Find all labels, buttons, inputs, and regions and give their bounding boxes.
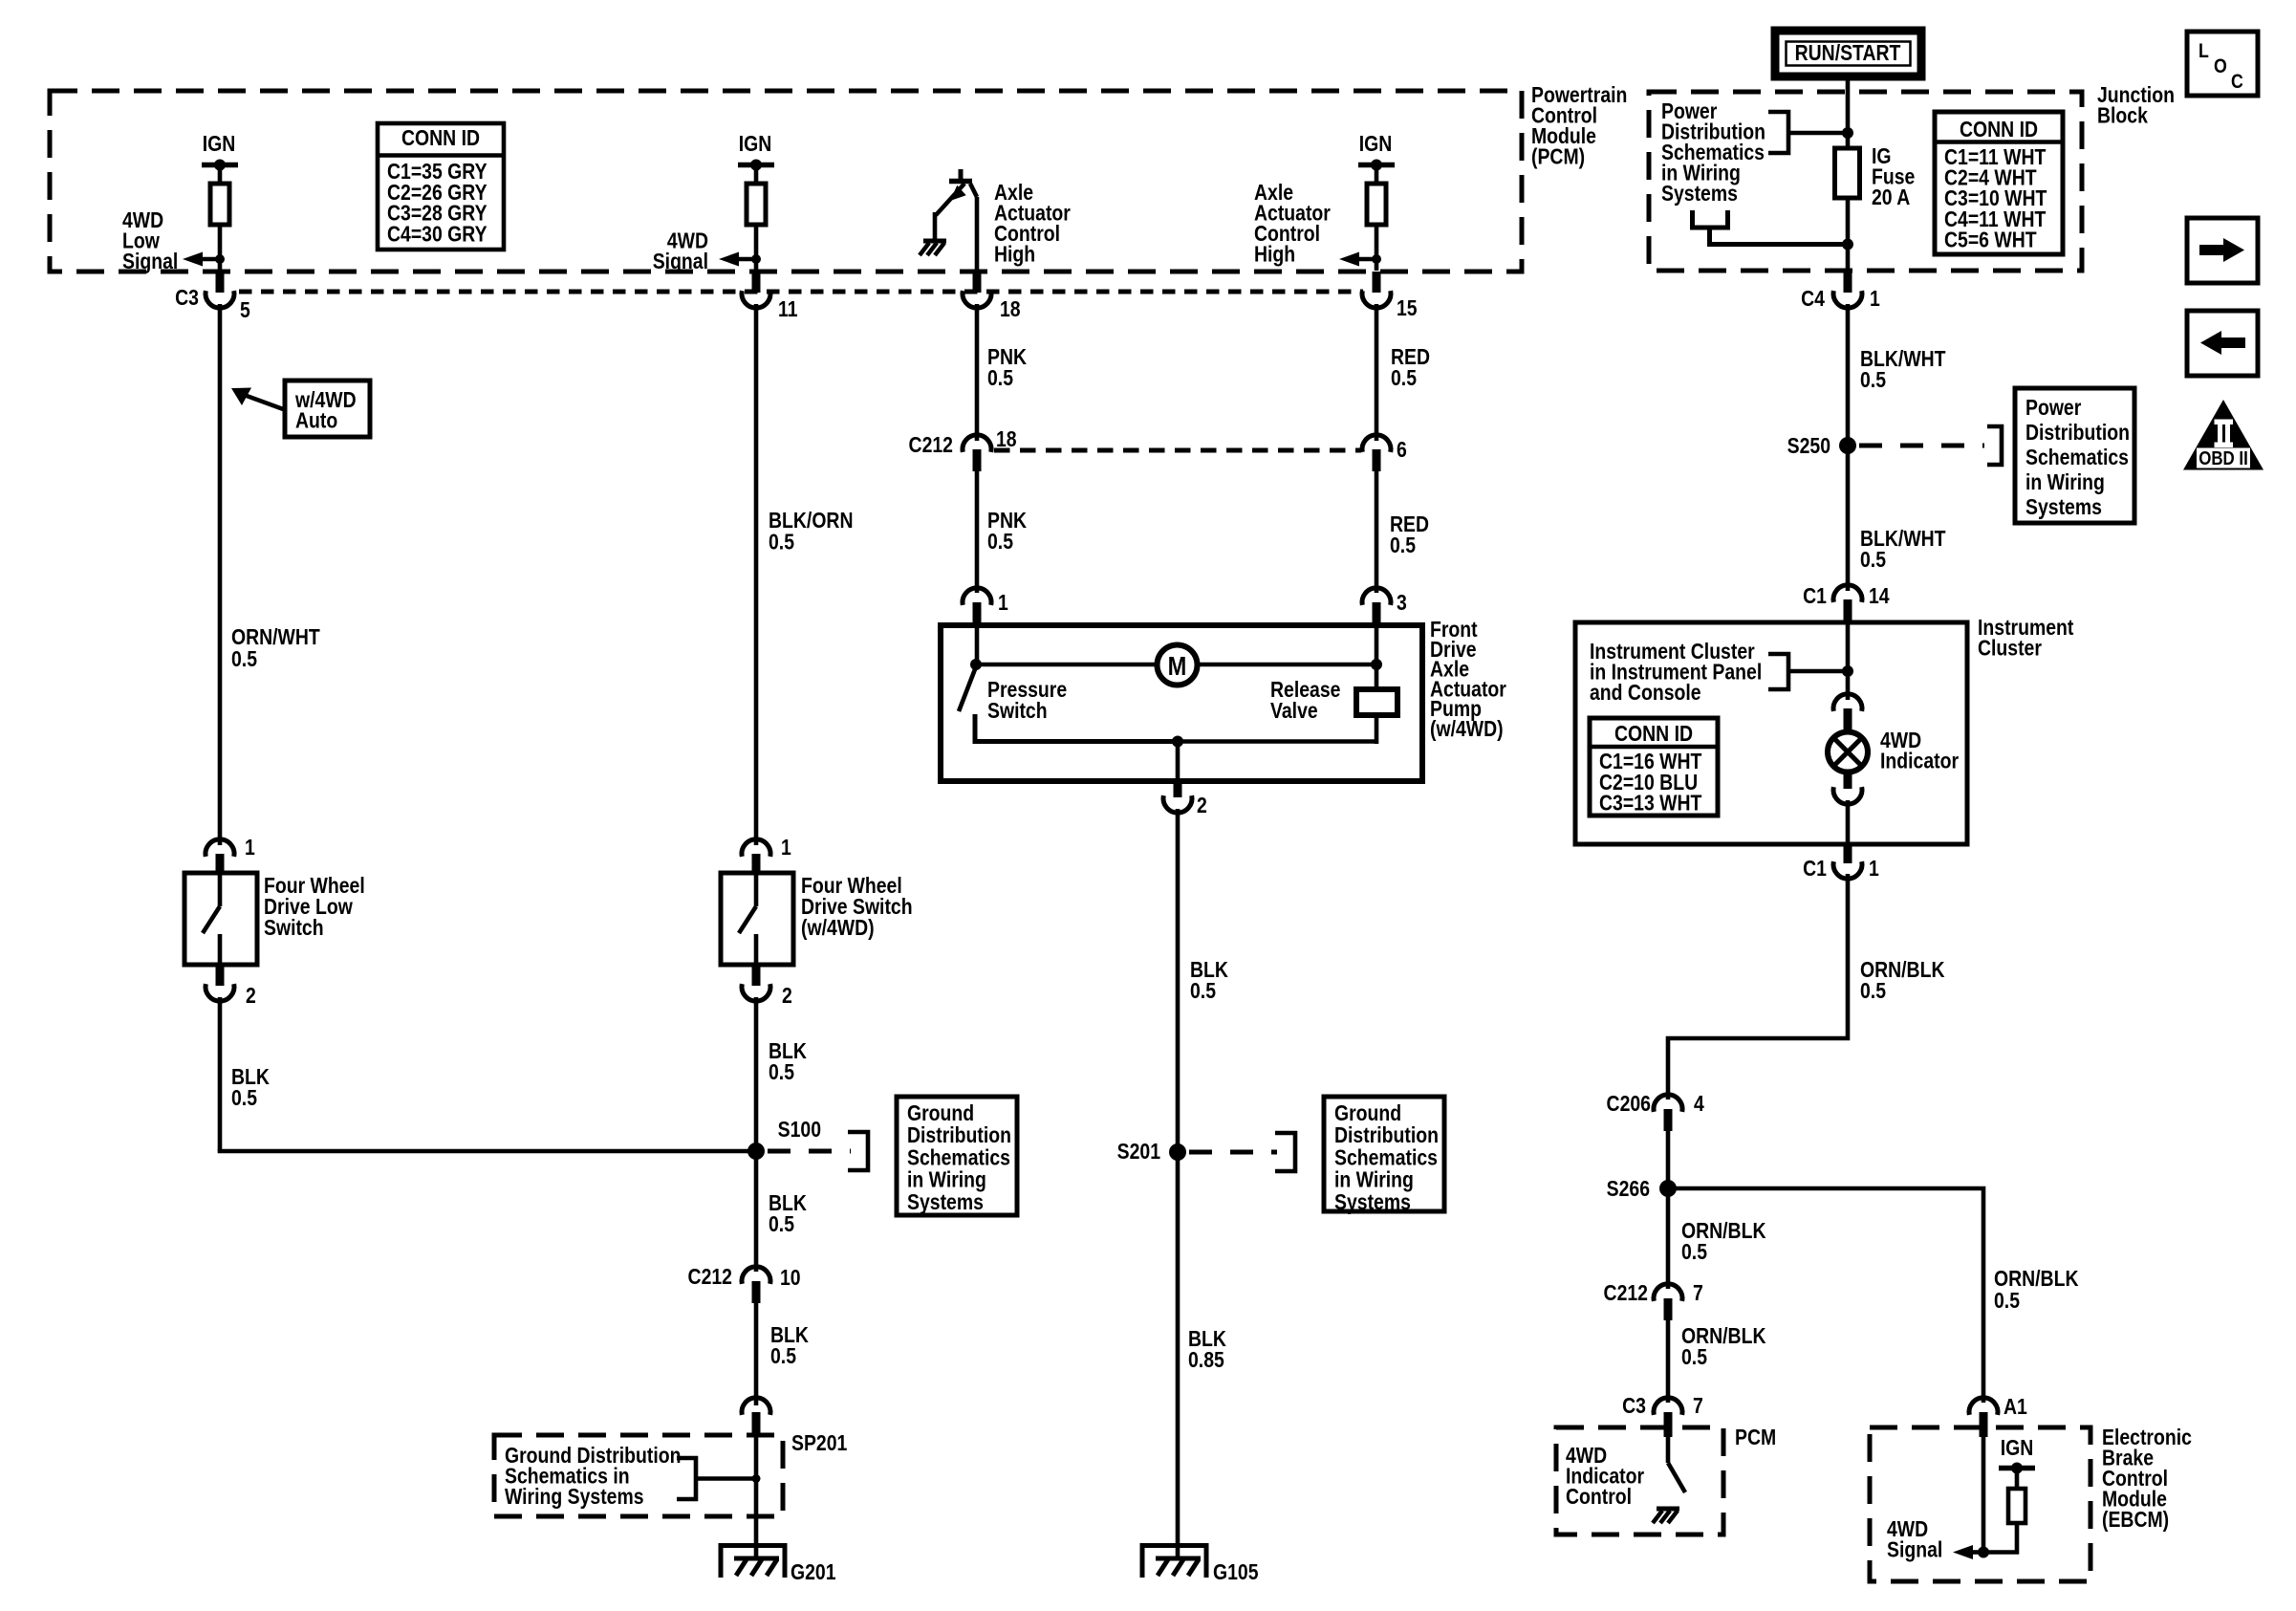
svg-text:C4: C4 — [1801, 286, 1825, 311]
wire RED 0.5 C212-6 to pump pin 3 — [1375, 471, 1379, 593]
label w/4WD Auto with arrow — [285, 381, 370, 437]
LOC legend box — [2187, 32, 2258, 96]
svg-text:C5=6 WHT: C5=6 WHT — [1944, 228, 2037, 252]
Ground Distribution Schematics in Wiring Systems box (S100) — [897, 1097, 1017, 1215]
PCM (Powertrain Control Module) dashed box — [50, 91, 1522, 272]
connector PCM pin 18 — [973, 272, 982, 293]
connector C206 pin 4 — [1654, 1095, 1682, 1112]
svg-text:CONN ID: CONN ID — [1614, 721, 1693, 746]
connector Four Wheel Drive Low Switch pin 1 — [206, 839, 234, 857]
wire ORN/BLK S266 to C212-7 — [1666, 1188, 1671, 1289]
svg-text:CONN ID: CONN ID — [401, 125, 480, 150]
svg-text:(PCM): (PCM) — [1531, 144, 1585, 169]
svg-text:G105: G105 — [1213, 1559, 1259, 1584]
arrow right legend box — [2187, 218, 2258, 283]
resistor EBCM 4WD signal pull-up — [2008, 1489, 2025, 1523]
wire RUN/START into junction block — [1846, 76, 1851, 151]
svg-text:1: 1 — [781, 835, 791, 860]
svg-text:A1: A1 — [2004, 1394, 2027, 1419]
connector C212 pin 18 — [963, 435, 991, 452]
svg-text:IGN: IGN — [203, 131, 236, 156]
wire IGN to resistor EBCM — [2015, 1468, 2020, 1489]
wire resistor to 4WD Signal node — [754, 225, 759, 271]
bracket reference power distribution — [1768, 112, 1788, 153]
svg-text:Switch: Switch — [264, 915, 324, 940]
wire ORN/BLK 0.5 C1-1 elbow to C206 — [1668, 874, 1848, 1099]
wire BLK 0.5 S100 to C212-10 — [754, 1151, 759, 1272]
bracket reference instrument cluster — [1768, 654, 1788, 689]
connector PCM pin 11 — [752, 272, 761, 293]
4WD indicator lamp connector bottom — [1844, 771, 1852, 789]
wire RED 0.5 pin15 to C212 — [1375, 304, 1379, 441]
svg-text:Systems: Systems — [1334, 1189, 1411, 1214]
svg-text:5: 5 — [240, 297, 250, 322]
svg-text:Systems: Systems — [2025, 494, 2102, 519]
node pressure switch — [970, 659, 982, 670]
svg-text:Signal: Signal — [122, 249, 178, 273]
junction block internal link symbol — [1693, 210, 1728, 228]
SP201 dashed box — [494, 1435, 783, 1516]
svg-text:0.5: 0.5 — [987, 365, 1013, 390]
connector instrument cluster C1 pin 14 — [1833, 585, 1862, 602]
connector instrument cluster C1 pin 1 — [1844, 844, 1852, 863]
svg-text:High: High — [1254, 242, 1295, 267]
splice S250 — [1839, 437, 1856, 454]
wire BLK 0.5 to S100 — [218, 997, 223, 1151]
4WD indicator lamp connector top — [1833, 694, 1862, 711]
svg-text:Switch: Switch — [987, 698, 1048, 723]
svg-text:in Wiring: in Wiring — [2025, 469, 2105, 494]
svg-text:0.5: 0.5 — [770, 1343, 796, 1368]
wire pump return to pin 2 — [1176, 742, 1180, 782]
ground G201 — [721, 1546, 785, 1578]
Junction Block dashed box — [1649, 92, 2082, 271]
dashed reference S201 to Ground Distribution — [1189, 1150, 1277, 1155]
svg-text:Signal: Signal — [1887, 1537, 1942, 1562]
connector Four Wheel Drive Switch pin 2 — [752, 965, 761, 986]
svg-text:0.5: 0.5 — [1190, 978, 1216, 1003]
connector Four Wheel Drive Low Switch pin 2 — [216, 965, 225, 986]
4WD indicator control driver switch — [1666, 1437, 1671, 1463]
svg-text:Wiring Systems: Wiring Systems — [505, 1484, 644, 1509]
wire resistor to 4WD signal node — [1983, 1523, 2017, 1553]
dashed line C212 row — [994, 448, 1361, 453]
wire A1 to 4WD Signal node — [1982, 1437, 1986, 1553]
wire BLK 0.85 S201 to G105 — [1176, 1152, 1180, 1560]
svg-text:High: High — [994, 242, 1035, 267]
svg-text:0.5: 0.5 — [231, 646, 257, 671]
ground G105 — [1142, 1546, 1206, 1578]
wire BLK 0.5 to S100 — [754, 997, 759, 1151]
wire BLK/WHT 0.5 S250 to C1-14 — [1846, 446, 1851, 591]
svg-text:Power: Power — [2025, 395, 2081, 420]
svg-text:C1: C1 — [1803, 856, 1827, 881]
svg-text:G201: G201 — [791, 1559, 836, 1584]
connector C212 pin 7 — [1654, 1284, 1682, 1301]
svg-text:2: 2 — [246, 983, 256, 1008]
svg-text:and Console: and Console — [1590, 680, 1701, 705]
connector C4 pin 1 — [1844, 272, 1852, 293]
resistor 4WD Low pull-up — [210, 184, 229, 225]
svg-text:S201: S201 — [1117, 1139, 1161, 1164]
connector Four Wheel Drive Switch pin 1 — [742, 839, 770, 857]
svg-text:PCM: PCM — [1735, 1425, 1776, 1449]
svg-text:(w/4WD): (w/4WD) — [801, 915, 875, 940]
Four Wheel Drive Switch (w/4WD) — [721, 873, 793, 965]
node fuse feed — [1842, 127, 1853, 139]
wire IGN to resistor — [1375, 167, 1379, 184]
bracket reference inside SP201 — [677, 1458, 696, 1499]
svg-text:1: 1 — [998, 590, 1008, 615]
svg-text:0.5: 0.5 — [1860, 367, 1886, 392]
fuse IG 20A — [1835, 148, 1860, 198]
PCM dashed box (4WD Indicator Control) — [1556, 1427, 1723, 1535]
svg-text:1: 1 — [1870, 286, 1880, 311]
wire resistor to control node — [1375, 225, 1379, 271]
motor feed wire left — [976, 663, 1157, 667]
node fuse output — [1842, 239, 1853, 250]
node pump return — [1172, 736, 1183, 748]
svg-text:O: O — [2214, 55, 2227, 78]
svg-text:CONN ID: CONN ID — [1960, 117, 2038, 142]
svg-text:IGN: IGN — [1359, 131, 1393, 156]
svg-text:L: L — [2199, 40, 2209, 63]
svg-text:6: 6 — [1397, 437, 1407, 462]
4WD indicator lamp — [1828, 732, 1868, 773]
pressure switch lower contact — [975, 714, 1178, 742]
pump internal return wire — [1178, 739, 1378, 744]
connector pump pin 3 — [1362, 588, 1391, 605]
svg-text:Cluster: Cluster — [1978, 636, 2042, 661]
svg-text:14: 14 — [1869, 583, 1890, 608]
wire ORN/WHT 0.5 (C3-5 to switch) — [218, 304, 223, 845]
svg-text:C212: C212 — [909, 432, 953, 457]
wire BLK/ORN 0.5 (pin 11 to switch) — [754, 304, 759, 845]
svg-text:C1: C1 — [1803, 583, 1827, 608]
svg-text:Ground: Ground — [907, 1100, 974, 1125]
svg-text:1: 1 — [245, 835, 255, 860]
svg-text:C212: C212 — [688, 1264, 732, 1289]
svg-text:C4=30 GRY: C4=30 GRY — [387, 222, 487, 247]
connector PCM C3 pin 7 — [1654, 1398, 1682, 1415]
dashed reference S100 to Ground Distribution — [768, 1149, 851, 1154]
node cluster feed — [1842, 665, 1853, 677]
svg-text:(w/4WD): (w/4WD) — [1430, 716, 1504, 741]
wire BLK 0.5 pump to S201 — [1176, 809, 1180, 1152]
svg-text:C206: C206 — [1607, 1091, 1652, 1116]
wire PNK 0.5 pin18 to C212 — [975, 304, 980, 441]
wire resistor to 4WD Low Signal node — [218, 225, 223, 271]
svg-text:(EBCM): (EBCM) — [2102, 1507, 2169, 1532]
connector EBCM pin A1 — [1969, 1398, 1998, 1415]
svg-text:0.5: 0.5 — [1860, 547, 1886, 572]
svg-text:C: C — [2231, 71, 2243, 94]
RUN/START fuse feed box — [1775, 31, 1921, 76]
node 4WD Low Signal arrow — [215, 254, 225, 264]
svg-text:C3=13 WHT: C3=13 WHT — [1599, 791, 1701, 816]
EBCM dashed box — [1870, 1427, 2090, 1581]
svg-text:11: 11 — [778, 296, 798, 321]
wire IGN to resistor — [754, 167, 759, 184]
svg-text:18: 18 — [1000, 296, 1021, 321]
svg-text:0.5: 0.5 — [1391, 365, 1417, 390]
svg-text:20 A: 20 A — [1872, 185, 1910, 209]
svg-text:C3: C3 — [175, 285, 199, 310]
wire S266 branch to EBCM A1 — [1668, 1188, 1983, 1403]
wire pump pin1 to pressure switch — [975, 625, 980, 669]
node 4WD Signal arrow — [751, 254, 761, 264]
svg-text:0.5: 0.5 — [231, 1085, 257, 1110]
svg-text:RUN/START: RUN/START — [1795, 40, 1901, 65]
splice pack SP201 connector — [742, 1398, 770, 1415]
svg-text:0.5: 0.5 — [1860, 978, 1886, 1003]
svg-text:Schematics: Schematics — [907, 1145, 1010, 1170]
resistor Axle Actuator pull-up — [1367, 184, 1386, 225]
svg-text:10: 10 — [780, 1265, 801, 1290]
svg-text:Control: Control — [1566, 1484, 1632, 1509]
dashed reference S250 to Power Distribution — [1859, 444, 1984, 448]
svg-text:Schematics: Schematics — [1334, 1145, 1438, 1170]
wire BLK/WHT 0.5 C4 to S250 — [1846, 304, 1851, 446]
wire IGN to resistor — [218, 167, 223, 184]
connector row dashed line C3/C1/C2 connectors — [239, 290, 1363, 294]
svg-text:0.5: 0.5 — [1681, 1239, 1707, 1264]
svg-text:Auto: Auto — [295, 408, 337, 433]
svg-text:Valve: Valve — [1270, 698, 1318, 723]
svg-text:15: 15 — [1397, 295, 1418, 320]
svg-text:0.5: 0.5 — [769, 530, 794, 555]
connector PCM pin 15 — [1373, 272, 1381, 293]
wire BLK 0.5 C212-10 to SP201 — [754, 1303, 759, 1405]
wire PNK 0.5 C212 to pump pin 1 — [975, 471, 980, 593]
svg-text:0.5: 0.5 — [769, 1211, 794, 1236]
resistor 4WD Signal pull-up — [747, 184, 766, 225]
svg-text:Distribution: Distribution — [907, 1123, 1011, 1148]
svg-text:Signal: Signal — [653, 249, 708, 273]
splice S100 — [747, 1143, 765, 1160]
wire C206 to S266 — [1666, 1131, 1671, 1188]
svg-text:0.5: 0.5 — [1994, 1288, 2020, 1313]
svg-text:Schematics: Schematics — [2025, 445, 2129, 469]
wire driver to pin 18 — [975, 197, 980, 271]
connector C212 pin 10 — [742, 1267, 770, 1284]
release valve coil — [1375, 664, 1379, 691]
svg-text:4: 4 — [1694, 1091, 1704, 1116]
motor M — [1158, 645, 1198, 686]
svg-text:0.5: 0.5 — [1390, 533, 1416, 557]
svg-text:IGN: IGN — [2001, 1435, 2034, 1460]
pressure switch blade — [959, 669, 975, 711]
svg-text:0.85: 0.85 — [1188, 1347, 1224, 1372]
Front Drive Axle Actuator Pump box — [941, 625, 1422, 781]
svg-text:Ground: Ground — [1334, 1100, 1401, 1125]
svg-text:in Wiring: in Wiring — [907, 1167, 986, 1192]
svg-text:0.5: 0.5 — [1681, 1344, 1707, 1369]
wire C1-14 into cluster — [1846, 622, 1851, 700]
svg-text:1: 1 — [1869, 856, 1879, 881]
wire pump pin3 to node — [1375, 625, 1379, 664]
svg-text:in Wiring: in Wiring — [1334, 1167, 1414, 1192]
node release valve feed — [1371, 659, 1382, 670]
svg-text:2: 2 — [1197, 793, 1207, 817]
node Axle Actuator Control High arrow — [1372, 254, 1381, 264]
svg-text:Systems: Systems — [907, 1189, 984, 1214]
svg-text:Systems: Systems — [1661, 181, 1738, 206]
arrow left legend box — [2187, 311, 2258, 376]
Power Distribution Schematics in Wiring Systems box (S250) — [2015, 388, 2134, 523]
svg-text:S266: S266 — [1607, 1176, 1651, 1201]
svg-text:0.5: 0.5 — [987, 529, 1013, 554]
svg-text:Distribution: Distribution — [2025, 420, 2130, 445]
connector pump pin 1 — [963, 588, 991, 605]
svg-text:C3: C3 — [1622, 1393, 1646, 1418]
svg-text:3: 3 — [1397, 590, 1407, 615]
svg-text:C212: C212 — [1604, 1280, 1648, 1305]
svg-text:OBD II: OBD II — [2199, 447, 2248, 469]
svg-text:S250: S250 — [1787, 433, 1830, 458]
node 4WD Signal EBCM arrow — [1978, 1547, 1989, 1558]
splice S201 — [1169, 1143, 1186, 1161]
label CONN ID instrument cluster — [1590, 718, 1718, 816]
svg-text:0.5: 0.5 — [769, 1059, 794, 1084]
label CONN ID junction block — [1935, 112, 2063, 254]
CONN ID table (PCM) — [378, 123, 504, 250]
motor feed wire right — [1198, 663, 1376, 667]
svg-text:Distribution: Distribution — [1334, 1123, 1439, 1148]
svg-text:M: M — [1168, 652, 1187, 681]
wire lamp to C1-1 — [1846, 800, 1851, 844]
connector pump pin 2 — [1174, 781, 1182, 797]
svg-text:7: 7 — [1693, 1393, 1703, 1418]
wire SP201 to G201 — [754, 1437, 759, 1560]
connector C212 pin 6 — [1362, 435, 1391, 452]
wire ORN/BLK C212-7 to C3-7 — [1666, 1320, 1671, 1403]
splice S266 — [1659, 1180, 1677, 1197]
connector C3 pin 5 — [216, 272, 225, 293]
svg-text:7: 7 — [1693, 1280, 1703, 1305]
PCM low-side driver Axle Actuator Control High (left) — [959, 169, 964, 180]
Ground Distribution Schematics in Wiring Systems box (S201) — [1324, 1097, 1444, 1211]
svg-text:SP201: SP201 — [791, 1430, 847, 1455]
Instrument Cluster box — [1575, 622, 1967, 844]
Four Wheel Drive Low Switch — [184, 873, 257, 965]
OBD II triangle icon — [2183, 400, 2264, 470]
svg-text:IGN: IGN — [739, 131, 772, 156]
wire horizontal to S100 — [218, 1149, 757, 1154]
svg-text:2: 2 — [782, 983, 792, 1008]
svg-text:S100: S100 — [778, 1117, 821, 1142]
svg-text:Indicator: Indicator — [1880, 749, 1959, 773]
wire fuse to C4 — [1846, 198, 1851, 271]
svg-text:Block: Block — [2097, 103, 2148, 128]
